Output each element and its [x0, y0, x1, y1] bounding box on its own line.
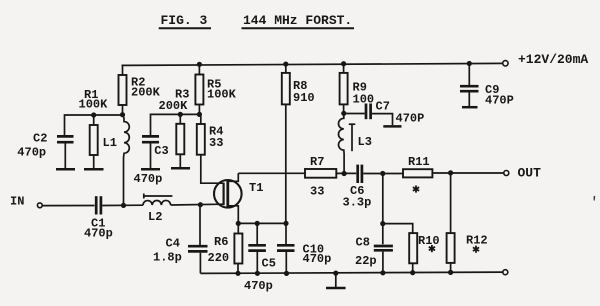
terminal IN [37, 203, 42, 208]
resistor R1 [90, 115, 98, 168]
inductor L3 [338, 113, 344, 173]
svg-text:C8: C8 [356, 236, 370, 250]
ground C3 [141, 168, 160, 171]
capacitor C6 [358, 165, 362, 183]
svg-text:OUT: OUT [518, 166, 542, 181]
svg-text:C3: C3 [154, 144, 168, 158]
svg-text:L2: L2 [148, 210, 162, 224]
title underline left [159, 27, 211, 29]
svg-text:C4: C4 [166, 237, 180, 251]
svg-text:100K: 100K [207, 88, 237, 102]
svg-text:470p: 470p [303, 252, 332, 266]
node source-C5 [255, 221, 260, 226]
resistor R9 [340, 64, 348, 114]
svg-text:470p: 470p [84, 226, 113, 240]
node rail-R8 junction [283, 61, 288, 66]
wire drain line [238, 172, 305, 174]
capacitor C3 [142, 136, 159, 168]
capacitor C7 [344, 104, 393, 126]
transistor T1 [214, 173, 242, 223]
ground R1 [84, 168, 104, 171]
title underline right [242, 27, 355, 29]
label * R10 [429, 245, 435, 252]
resistor R4 [197, 114, 224, 183]
resistor R8 [282, 64, 290, 223]
svg-text:470p: 470p [134, 172, 163, 186]
svg-text:100K: 100K [79, 98, 109, 112]
svg-text:FIG. 3: FIG. 3 [161, 13, 208, 28]
node rail-R9 junction [341, 61, 346, 66]
ground C2 [56, 168, 75, 171]
svg-text:R7: R7 [310, 155, 324, 169]
svg-text:470P: 470P [485, 94, 514, 108]
ground C9 [462, 106, 478, 109]
svg-text:IN: IN [10, 195, 24, 209]
inductor L1 [123, 115, 130, 206]
capacitor C10 [277, 223, 295, 273]
wire IN to C1 [42, 205, 94, 207]
node R9-L3-C7 junction [341, 111, 346, 116]
wire R11 to OUT [432, 172, 503, 174]
svg-text:1.8p: 1.8p [153, 251, 182, 265]
node rail-R10 [410, 270, 415, 275]
svg-text:R11: R11 [408, 155, 430, 169]
wire bottom rail [200, 272, 503, 273]
wire source line [238, 222, 286, 224]
node rail-C8 [380, 270, 385, 275]
svg-text:470p: 470p [17, 145, 46, 159]
node rail-C10 [284, 271, 289, 276]
node R12 branch [448, 170, 453, 175]
capacitor C9 [460, 64, 479, 107]
svg-text:220: 220 [208, 251, 230, 265]
node C8 branch [380, 171, 385, 176]
node rail-R12 [448, 270, 453, 275]
node gate-C4 junction [198, 202, 203, 207]
svg-text:R10: R10 [418, 234, 440, 248]
svg-text:C5: C5 [262, 257, 276, 271]
resistor R10 [409, 233, 417, 272]
svg-text:470p: 470p [244, 279, 273, 293]
svg-text:910: 910 [293, 91, 315, 105]
node drain-L3 junction [342, 171, 347, 176]
svg-text:C7: C7 [376, 100, 390, 114]
terminal +12V [503, 61, 508, 66]
svg-text:200K: 200K [131, 86, 161, 100]
capacitor C8 [374, 246, 393, 273]
node source-R6 [236, 221, 241, 226]
wire bias node G2 [151, 114, 200, 136]
resistor R2 [119, 65, 127, 114]
capacitor C2 [57, 136, 74, 168]
core bar L2 [144, 194, 173, 199]
resistor R3 [176, 114, 184, 167]
node source-R8-C10 [283, 221, 288, 226]
stray mark right edge [594, 196, 596, 201]
resistor R6 [234, 223, 242, 273]
terminal OUT [504, 171, 509, 176]
wire +12V top rail [122, 63, 504, 65]
wire C6 to R11 [363, 173, 403, 175]
svg-text:470P: 470P [396, 112, 425, 126]
node R3 top [178, 112, 183, 117]
resistor R12 [447, 173, 455, 272]
wire branch to R10 [383, 224, 413, 234]
ground R3 [171, 167, 190, 170]
capacitor C1 [96, 196, 101, 214]
terminal ground right [503, 270, 508, 275]
svg-text:3.3p: 3.3p [343, 196, 372, 210]
node R1 top [91, 112, 96, 117]
resistor R11 [403, 169, 432, 177]
wire bias node G1 [65, 115, 123, 136]
svg-text:200K: 200K [159, 99, 189, 113]
ground symbol bottom [326, 273, 346, 288]
svg-text:L1: L1 [103, 136, 117, 150]
svg-text:+12V/20mA: +12V/20mA [518, 52, 588, 67]
node R2-L1 [120, 112, 125, 117]
wire R7 to C6 [336, 172, 356, 174]
node rail-R6 [235, 271, 240, 276]
resistor R5 [195, 64, 203, 114]
capacitor C4 [188, 205, 208, 274]
svg-text:R12: R12 [466, 234, 488, 248]
core bar L3 [349, 124, 356, 151]
inductor L2 [143, 200, 171, 205]
svg-text:L3: L3 [358, 135, 372, 149]
node C8-R10 branch [380, 221, 385, 226]
resistor R7 [305, 169, 336, 178]
svg-text:144 MHz FORST.: 144 MHz FORST. [243, 13, 352, 28]
svg-text:33: 33 [310, 185, 324, 199]
wire C1 to L2 [102, 204, 143, 206]
node C1-L1 junction [121, 203, 126, 208]
ground C7 [383, 125, 401, 128]
svg-text:C2: C2 [33, 132, 47, 146]
svg-text:22p: 22p [355, 254, 377, 268]
svg-text:33: 33 [209, 136, 223, 150]
svg-text:R6: R6 [214, 235, 228, 249]
wire C8 branch vertical [382, 174, 384, 245]
capacitor C5 [248, 223, 266, 273]
node rail-ground [333, 271, 338, 276]
node rail-C5 [255, 271, 260, 276]
node rail-C9 junction [467, 61, 472, 66]
svg-text:T1: T1 [249, 181, 263, 195]
label * R11 [413, 185, 419, 192]
wire L2 to gate [171, 203, 224, 206]
node R5-R4 [197, 112, 202, 117]
node rail-R5 junction [197, 62, 202, 67]
label * R12 [473, 246, 479, 253]
